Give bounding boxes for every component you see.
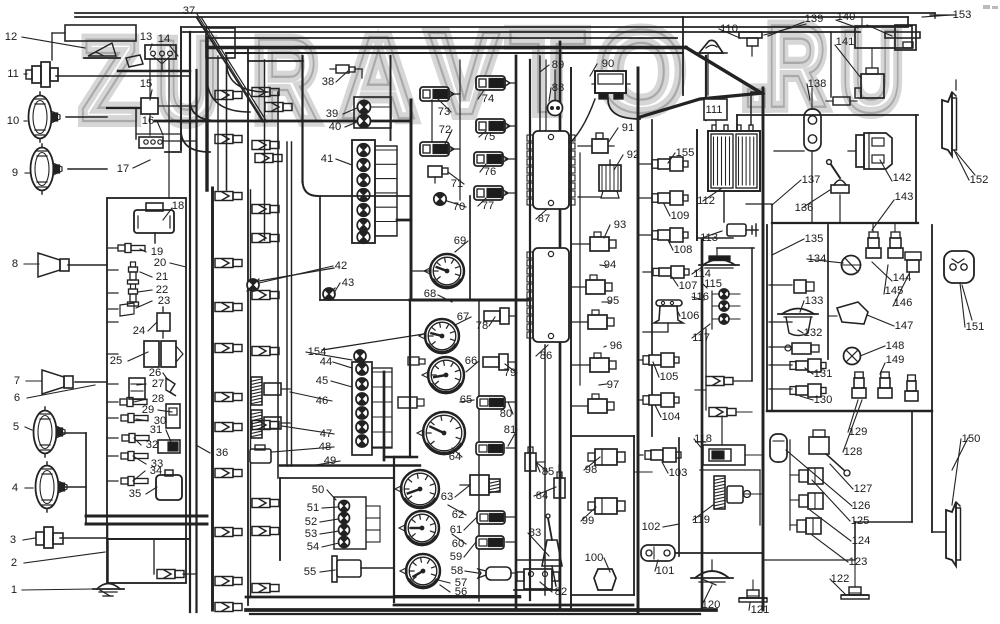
svg-text:2: 2 (11, 557, 17, 569)
svg-text:21: 21 (156, 271, 168, 283)
svg-text:12: 12 (5, 31, 17, 43)
svg-text:57: 57 (455, 577, 467, 589)
svg-text:108: 108 (674, 244, 693, 256)
svg-text:99: 99 (582, 515, 594, 527)
svg-text:14: 14 (158, 33, 170, 45)
svg-text:139: 139 (805, 13, 824, 25)
svg-text:98: 98 (585, 464, 597, 476)
svg-text:13: 13 (140, 31, 152, 43)
svg-text:1: 1 (11, 584, 17, 596)
svg-text:71: 71 (451, 178, 463, 190)
svg-text:37: 37 (183, 5, 195, 17)
svg-text:77: 77 (482, 200, 494, 212)
svg-text:R: R (253, 16, 319, 147)
svg-text:148: 148 (886, 340, 905, 352)
svg-text:36: 36 (216, 447, 228, 459)
svg-text:6: 6 (14, 392, 20, 404)
svg-text:137: 137 (802, 174, 821, 186)
svg-text:79: 79 (504, 367, 516, 379)
svg-text:60: 60 (452, 538, 464, 550)
svg-text:143: 143 (895, 191, 914, 203)
svg-text:101: 101 (656, 565, 675, 577)
svg-text:117: 117 (692, 332, 710, 344)
svg-text:68: 68 (424, 288, 436, 300)
svg-text:84: 84 (536, 490, 548, 502)
svg-text:29: 29 (142, 404, 154, 416)
svg-text:78: 78 (476, 320, 488, 332)
svg-text:147: 147 (895, 320, 914, 332)
svg-text:59: 59 (450, 551, 462, 563)
svg-text:152: 152 (970, 174, 989, 186)
svg-text:73: 73 (438, 106, 450, 118)
svg-text:106: 106 (681, 310, 700, 322)
svg-text:51: 51 (307, 502, 319, 514)
svg-text:23: 23 (158, 295, 170, 307)
svg-text:127: 127 (854, 483, 873, 495)
svg-text:76: 76 (484, 166, 496, 178)
svg-text:123: 123 (849, 556, 868, 568)
svg-text:151: 151 (966, 321, 985, 333)
svg-text:154: 154 (308, 346, 327, 358)
svg-text:87: 87 (538, 213, 550, 225)
svg-text:9: 9 (12, 167, 18, 179)
svg-text:3: 3 (10, 534, 16, 546)
svg-text:109: 109 (671, 210, 690, 222)
svg-text:T: T (509, 5, 586, 137)
svg-text:155: 155 (676, 147, 695, 159)
svg-text:82: 82 (555, 586, 567, 598)
svg-text:142: 142 (893, 172, 912, 184)
svg-text:40: 40 (329, 121, 341, 133)
svg-text:92: 92 (627, 149, 639, 161)
svg-text:66: 66 (465, 355, 477, 367)
svg-text:104: 104 (662, 411, 681, 423)
svg-text:5: 5 (13, 421, 19, 433)
svg-text:70: 70 (453, 201, 465, 213)
svg-text:47: 47 (320, 428, 332, 440)
svg-text:27: 27 (152, 378, 164, 390)
svg-text:95: 95 (607, 295, 619, 307)
svg-text:130: 130 (814, 394, 833, 406)
svg-text:125: 125 (851, 515, 870, 527)
svg-text:8: 8 (12, 258, 18, 270)
svg-text:10: 10 (7, 115, 19, 127)
svg-text:55: 55 (304, 566, 316, 578)
svg-text:39: 39 (326, 108, 338, 120)
svg-text:105: 105 (660, 371, 679, 383)
svg-text:153: 153 (953, 9, 972, 21)
svg-text:49: 49 (324, 455, 336, 467)
svg-text:74: 74 (482, 93, 494, 105)
svg-text:86: 86 (540, 350, 552, 362)
svg-text:111: 111 (705, 104, 722, 116)
svg-text:93: 93 (614, 219, 626, 231)
svg-text:20: 20 (154, 257, 166, 269)
svg-text:88: 88 (552, 82, 564, 94)
svg-text:131: 131 (814, 368, 833, 380)
svg-text:34: 34 (150, 465, 162, 477)
svg-text:121: 121 (751, 604, 770, 616)
svg-text:133: 133 (805, 295, 824, 307)
svg-text:149: 149 (886, 354, 905, 366)
svg-text:124: 124 (852, 535, 871, 547)
svg-text:89: 89 (552, 59, 564, 71)
svg-text:58: 58 (451, 565, 463, 577)
svg-text:96: 96 (610, 340, 622, 352)
svg-text:24: 24 (133, 325, 145, 337)
svg-text:46: 46 (316, 395, 328, 407)
svg-text:50: 50 (312, 484, 324, 496)
svg-text:63: 63 (441, 491, 453, 503)
svg-text:100: 100 (585, 552, 604, 564)
svg-text:136: 136 (795, 202, 814, 214)
svg-text:64: 64 (449, 451, 461, 463)
svg-text:102: 102 (642, 521, 661, 533)
svg-text:41: 41 (321, 153, 333, 165)
svg-text:54: 54 (307, 541, 319, 553)
svg-text:52: 52 (305, 516, 317, 528)
svg-text:32: 32 (146, 439, 158, 451)
svg-text:80: 80 (500, 408, 512, 420)
svg-text:45: 45 (316, 375, 328, 387)
svg-text:42: 42 (335, 260, 347, 272)
svg-text:31: 31 (150, 424, 162, 436)
svg-text:43: 43 (342, 277, 354, 289)
svg-text:35: 35 (129, 488, 141, 500)
svg-text:112: 112 (697, 195, 715, 207)
svg-text:4: 4 (12, 482, 18, 494)
svg-text:7: 7 (14, 375, 20, 387)
svg-text:A: A (340, 11, 417, 143)
svg-text:132: 132 (804, 327, 823, 339)
svg-text:Z: Z (80, 14, 139, 146)
svg-text:97: 97 (607, 379, 619, 391)
svg-text:90: 90 (602, 58, 614, 70)
svg-text:38: 38 (322, 76, 334, 88)
svg-text:103: 103 (669, 467, 688, 479)
svg-text:126: 126 (852, 500, 871, 512)
svg-text:94: 94 (604, 259, 616, 271)
svg-text:150: 150 (962, 433, 981, 445)
svg-text:135: 135 (805, 233, 824, 245)
svg-text:17: 17 (117, 163, 129, 175)
svg-text:69: 69 (454, 235, 466, 247)
svg-text:83: 83 (529, 527, 541, 539)
svg-text:18: 18 (172, 200, 184, 212)
svg-text:91: 91 (622, 122, 634, 134)
svg-text:15: 15 (140, 78, 152, 90)
svg-text:53: 53 (305, 528, 317, 540)
svg-text:141: 141 (836, 36, 855, 48)
svg-text:16: 16 (142, 115, 154, 127)
svg-text:138: 138 (808, 78, 827, 90)
svg-text:11: 11 (7, 68, 19, 80)
svg-text:25: 25 (110, 355, 122, 367)
svg-text:128: 128 (844, 446, 863, 458)
svg-text:119: 119 (692, 514, 710, 526)
